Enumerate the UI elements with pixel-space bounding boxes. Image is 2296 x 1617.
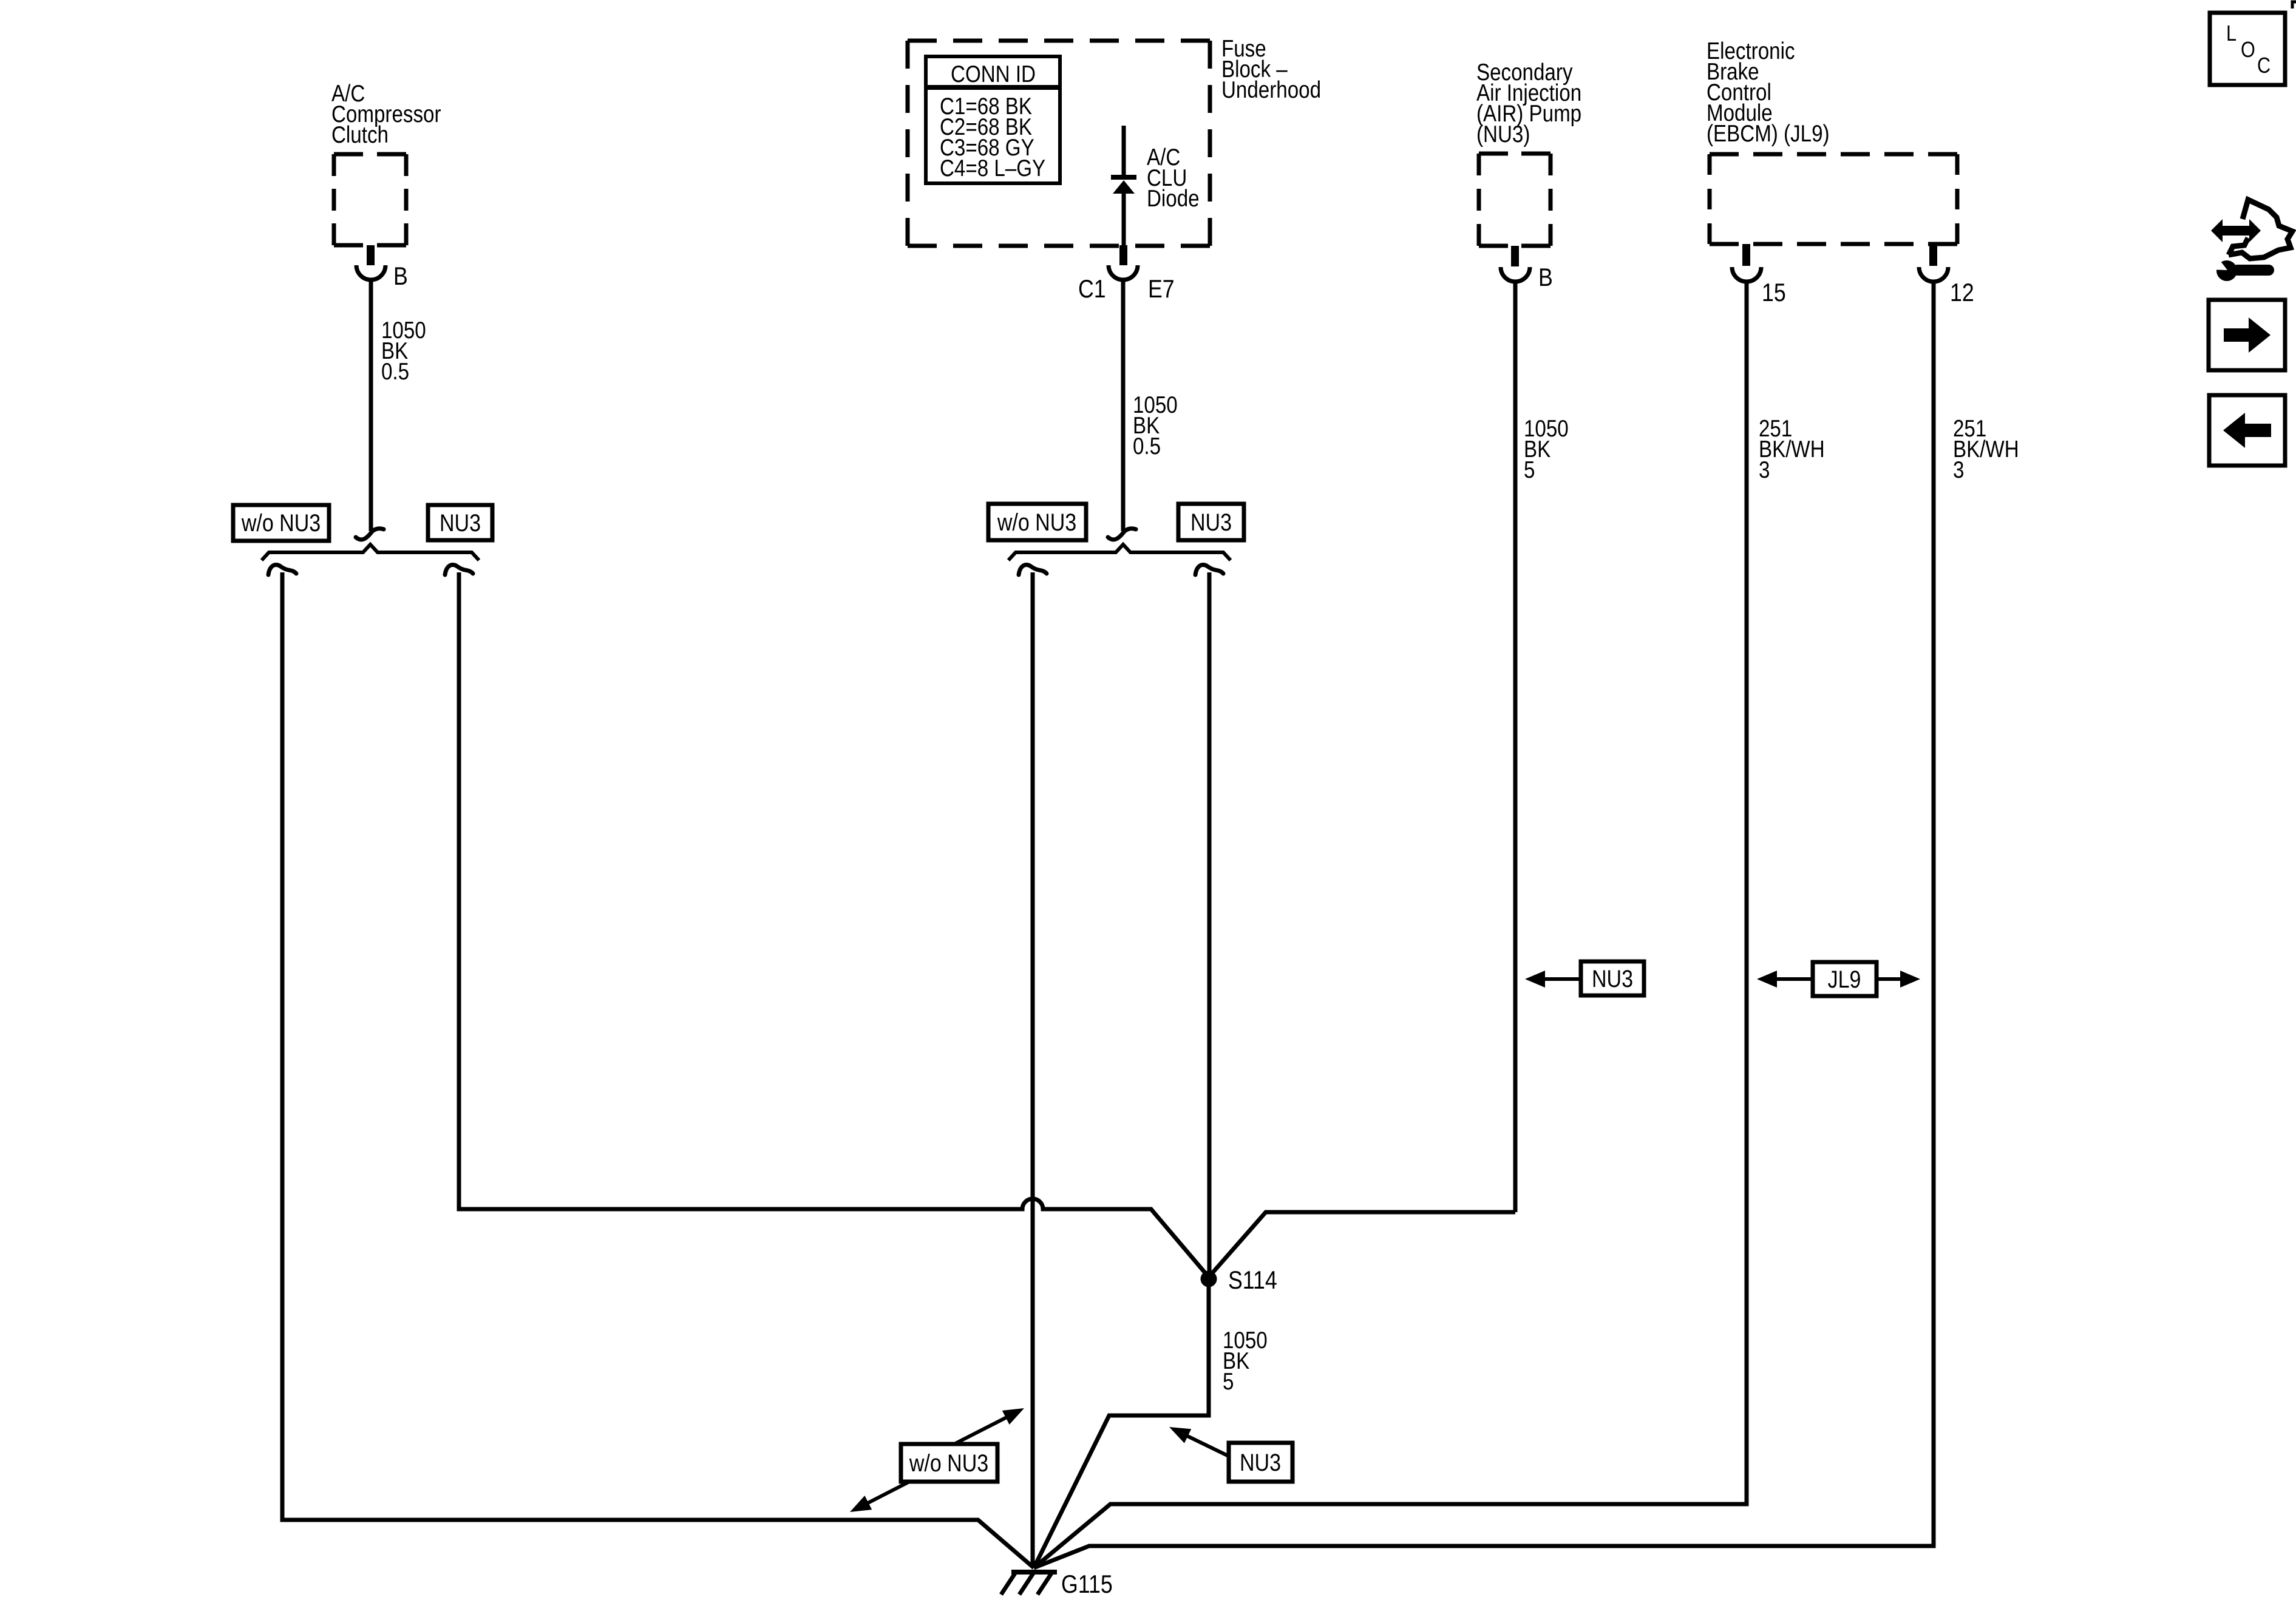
EBCM dashed component box [1710,154,1957,244]
option ref box JL9 with arrows pointing to both EBCM wires [1757,962,1920,996]
svg-text:12: 12 [1950,279,1974,307]
wire value label 1050 BK 0.5 [381,316,426,384]
svg-text:B: B [393,262,408,290]
svg-text:NU3: NU3 [1190,508,1232,535]
wire value label 1050 BK 5 (S114 to ground) [1223,1326,1268,1394]
splice node S114 (dot) [1201,1271,1217,1287]
connector pin B of AIR pump (stub + socket arc) [1501,246,1530,282]
svg-text:w/o NU3: w/o NU3 [909,1449,988,1476]
svg-text:0.5: 0.5 [381,358,409,384]
svg-text:w/o NU3: w/o NU3 [241,509,321,536]
option ref box NU3 with arrow pointing to AIR pump wire [1525,961,1644,995]
svg-text:15: 15 [1762,279,1786,307]
svg-text:NU3: NU3 [1240,1448,1281,1476]
option ref box w/o NU3 (bottom) with two arrows [846,1401,1028,1519]
wire: from S114 down then left then diagonal into ground [1034,1279,1209,1568]
svg-text:3: 3 [1759,456,1770,483]
A/C Compressor Clutch dashed component box [334,154,406,245]
connector pin 15 of EBCM (stub + socket arc) [1732,244,1761,282]
connector pin 12 of EBCM (stub + socket arc) [1919,244,1948,282]
wire: A/C w/o NU3 branch down, right along bottom, into ground [282,572,1034,1568]
AIR Pump dashed component box [1479,154,1550,246]
wire value label 251 BK/WH 3 (pin 15 wire) [1759,415,1825,483]
branch hook left (A/C w/o NU3 branch top) [268,565,296,575]
option ref box NU3 (bottom) with arrow [1166,1420,1292,1482]
wire: EBCM pin 15 ground wire down, left along bottom, into ground [1034,281,1747,1568]
svg-text:E7: E7 [1148,275,1175,303]
CONN ID table [926,56,1060,183]
svg-text:(EBCM) (JL9): (EBCM) (JL9) [1707,120,1830,146]
component label: A/C Compressor Clutch [331,80,441,147]
ground symbol G115 [1001,1572,1057,1595]
svg-text:3: 3 [1953,456,1964,483]
diode A/C CLU Diode (cathode bar + triangle) [1111,175,1136,194]
icon: right arrow box [2209,300,2285,370]
connector pin B of A/C Compressor Clutch (stub + socket arc) [356,245,385,280]
svg-text:0.5: 0.5 [1133,432,1161,459]
branch hook right (A/C NU3 branch top) [445,565,473,575]
Fuse Block dashed component box [908,41,1210,246]
harness split brace (A/C) [262,544,479,560]
wire: fuse block ground wire (vertical) [1121,279,1126,531]
wire: fuse NU3 branch straight down to splice S114 [1207,572,1212,1272]
wire value label 1050 BK 5 (AIR pump wire) [1524,415,1569,483]
wire: A/C clutch ground wire (vertical) [369,279,373,531]
wire below diode to box edge [1122,192,1126,245]
wire value label 1050 BK 0.5 (fuse block wire) [1133,391,1178,459]
svg-text:C: C [2257,54,2271,78]
LOC legend box (top right) [2210,13,2285,85]
svg-text:5: 5 [1223,1368,1234,1394]
svg-text:CONN ID: CONN ID [951,60,1036,87]
branch hook right (fuse NU3 branch top) [1195,565,1223,575]
icon: left arrow box [2209,395,2285,466]
component label: Secondary Air Injection (AIR) Pump (NU3) [1476,58,1581,147]
svg-text:C1: C1 [1078,275,1106,303]
wire: A/C NU3 branch down, right with hop over vertical, to S114 [459,572,1209,1277]
diode label: A/C CLU Diode [1147,143,1200,211]
option tag box: w/o NU3 (middle) [988,504,1086,540]
svg-text:Diode: Diode [1147,185,1200,211]
wire: AIR pump ground wire down to junction with S114 run [1513,281,1518,1212]
svg-text:NU3: NU3 [440,509,481,536]
wire: fuse w/o NU3 branch straight down to ground G115 [1031,572,1035,1568]
option tag box: NU3 (left) [428,505,492,540]
wire break squiggle at A/C wire end [356,529,384,540]
option tag box: w/o NU3 (left) [233,505,329,541]
connector C1 pin E7 of fuse block (stub + socket arc) [1109,245,1138,280]
svg-text:C4=8 L–GY: C4=8 L–GY [940,154,1045,181]
svg-text:B: B [1538,263,1553,291]
wire: EBCM pin 12 ground wire down, left along bottom, into ground [1034,281,1934,1568]
svg-text:O: O [2241,38,2255,63]
icon: vehicle with double arrow and wrench [2208,200,2292,281]
page corner mark (top right) [2292,2,2296,8]
svg-text:NU3: NU3 [1592,964,1633,992]
svg-text:Clutch: Clutch [331,121,389,147]
svg-text:Underhood: Underhood [1221,76,1321,103]
harness split brace (fuse block) [1008,544,1231,560]
svg-text:JL9: JL9 [1828,965,1861,992]
wire above diode (inside fuse block) [1122,126,1126,176]
svg-text:G115: G115 [1061,1570,1113,1598]
wire break squiggle at fuse wire end [1108,529,1136,540]
wire: from S114 up-right to AIR pump wire [1209,1212,1515,1277]
svg-text:5: 5 [1524,456,1535,483]
component label: Fuse Block - Underhood [1221,35,1321,103]
branch hook left (fuse w/o NU3 branch top) [1019,565,1047,575]
component label: Electronic Brake Control Module (EBCM) (JL9) [1707,37,1830,146]
svg-text:w/o NU3: w/o NU3 [997,508,1076,535]
svg-text:L: L [2226,22,2237,46]
option tag box: NU3 (middle) [1178,504,1244,540]
svg-text:S114: S114 [1228,1266,1277,1294]
svg-text:(NU3): (NU3) [1476,120,1530,147]
wire value label 251 BK/WH 3 (pin 12 wire) [1953,415,2019,483]
